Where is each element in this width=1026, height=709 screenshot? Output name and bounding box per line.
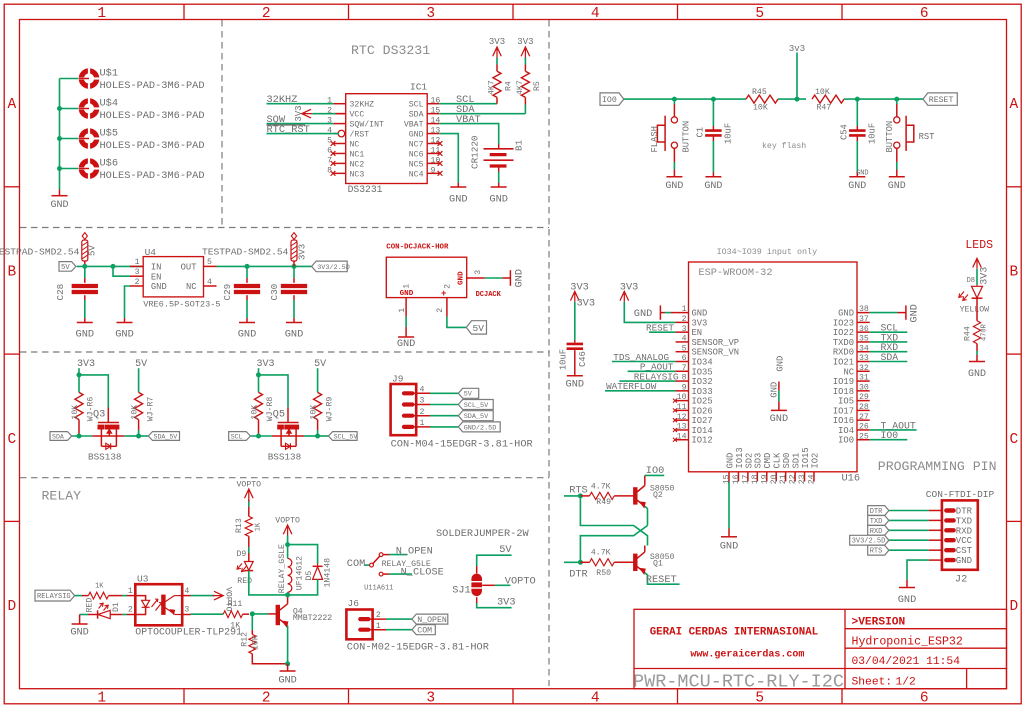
svg-text:NC7: NC7 [409,141,424,150]
ground C30 [293,318,295,323]
svg-text:NC5: NC5 [409,160,424,169]
frame column tick bottom 5 [841,689,843,704]
U3 pin 4 [182,595,190,597]
wire U16 pin38 to ground [870,312,898,314]
U16 pin 6 IO34 [676,361,689,363]
svg-text:/RST: /RST [350,130,370,140]
svg-text:1/2: 1/2 [896,676,916,688]
wire RTC_RST [267,133,339,135]
wire IC1 GND pin to ground [439,134,458,183]
U16 pin 12 IO27 [676,419,689,421]
U16 pin 10 IO25 [676,400,689,402]
svg-text:4: 4 [207,278,212,287]
svg-text:U16: U16 [842,472,861,484]
wire Q4 emitter to ground node [287,626,289,664]
connector J9 box [391,384,417,435]
svg-text:key flash: key flash [762,141,806,151]
U4 pin 3 EN [130,275,143,277]
wire SCL to R4 [439,103,497,105]
junction flash button [672,97,677,102]
svg-text:1: 1 [97,691,106,707]
mounting hole pad U$5 [81,131,96,146]
svg-text:U$4: U$4 [100,97,119,109]
IC1 pin 10 NC5 [427,162,439,164]
wire SCL U16 [870,331,908,333]
svg-text:1K: 1K [95,583,104,591]
wire 5V rail [77,265,144,267]
svg-text:C54: C54 [840,124,850,140]
svg-text:BSS138: BSS138 [268,451,301,462]
svg-text:SCL_5V: SCL_5V [464,402,489,410]
svg-text:Q3: Q3 [93,408,105,420]
svg-text:28: 28 [859,403,869,412]
svg-text:TESTPAD-SMD2.54: TESTPAD-SMD2.54 [202,247,289,258]
U16 pin 15 GND bottom [728,472,730,482]
wire J2 VCC [889,539,929,541]
net label GND/2.5D J9 [458,422,500,432]
net label 5V DCJACK [466,321,486,334]
svg-text:4: 4 [682,335,687,344]
svg-text:RELAY_GSLE: RELAY_GSLE [278,544,287,593]
ground U4 [124,318,126,323]
svg-text:IN: IN [151,263,162,273]
svg-text:OUT: OUT [181,263,197,273]
wire J2 RXD [889,529,929,531]
svg-text:GND: GND [285,329,304,341]
U16 pin 13 IO14 [676,429,689,431]
svg-text:3V3: 3V3 [294,105,304,121]
resistor R47 10K [812,95,844,103]
title block outer box [634,609,1007,688]
LED D1 RED symbol [122,614,127,616]
svg-text:RELAY_G5LE: RELAY_G5LE [382,560,431,569]
svg-text:4K7: 4K7 [516,80,525,95]
svg-text:SCL: SCL [409,101,424,110]
svg-text:10K: 10K [753,104,768,113]
junction C29 [245,264,250,269]
wire VBAT to battery [439,124,499,145]
wire SJ1 top to 5V [476,566,478,573]
svg-text:RESET: RESET [646,574,677,586]
svg-text:3V3: 3V3 [980,267,991,285]
IC1 pin 3 SQW/INT [334,123,346,125]
svg-text:10K: 10K [131,405,140,420]
svg-text:B: B [1009,264,1018,280]
no-connect X IC1 pin 8 [331,171,336,176]
U3 pin 1 [127,595,135,597]
svg-text:U$1: U$1 [100,67,119,79]
svg-text:PWR-MCU-RTC-RLY-I2C: PWR-MCU-RTC-RLY-I2C [633,672,844,693]
power symbol 3V3 LED [973,258,982,269]
svg-text:UF14G12: UF14G12 [296,556,305,590]
frame column tick bottom 4 [677,689,679,704]
svg-text:3V3: 3V3 [577,298,596,310]
svg-text:RED: RED [237,577,252,586]
net label 5V power row [59,262,76,272]
svg-text:HOLES-PAD-3M6-PAD: HOLES-PAD-3M6-PAD [100,170,205,182]
wire SQW [267,123,334,125]
wire 3V3 rail [217,265,312,267]
svg-text:J9: J9 [392,374,404,385]
svg-text:GND: GND [898,594,917,606]
svg-text:IO4: IO4 [838,426,854,436]
resistor R11 1K [223,611,242,618]
wire RESET to U16 pin3 [649,331,676,333]
svg-text:IO14: IO14 [692,426,713,436]
IC1 pin 13 GND [427,133,439,135]
U16 pin 32 NC [857,370,870,372]
no-connect X IC1 pin 12 [438,141,443,146]
net label 3V3/2.5D J2 [850,535,889,545]
IC1 pin 14 VBAT [427,123,439,125]
svg-text:IO26: IO26 [692,406,713,416]
svg-text:N_OPEN: N_OPEN [396,546,433,558]
net label RTS J2 [868,545,889,555]
U16 pin 28 IO17 [857,409,870,411]
net label RESET key flash [923,93,957,105]
svg-text:WJ-R7: WJ-R7 [146,397,155,422]
svg-text:NC: NC [186,282,197,292]
IC1 pin 12 NC7 [427,143,439,145]
svg-text:31: 31 [859,374,869,383]
svg-text:NC4: NC4 [409,170,424,179]
svg-text:SDA: SDA [52,433,64,440]
ground C1 [712,173,714,177]
svg-text:IO34~IO39 input only: IO34~IO39 input only [717,247,818,257]
svg-text:C46: C46 [578,351,588,367]
U16 pin 1 GND [676,312,689,314]
junction C30 [292,264,297,269]
IC1 pin 15 SDA [427,113,439,115]
module U16 box ESP-WROOM-32 [689,262,858,472]
U16 pin 36 IO22 [857,331,870,333]
svg-text:BSS138: BSS138 [88,451,121,462]
svg-text:GND: GND [909,304,921,323]
section divider dashed horizontal y=477.7 [20,477,549,479]
svg-text:3V3: 3V3 [692,318,708,328]
svg-text:IO2: IO2 [810,453,820,469]
svg-text:1: 1 [420,419,425,428]
U16 pin 11 IO26 [676,409,689,411]
svg-text:GND: GND [566,379,585,391]
svg-text:33: 33 [859,354,869,363]
svg-text:1: 1 [135,258,140,267]
wire J9 pin 2 to SDA_5V [430,415,458,417]
wire R6 to source row [78,420,80,436]
svg-text:U4: U4 [145,247,157,258]
testpad TP 3V3 [291,233,296,240]
svg-text:TXD: TXD [870,518,883,526]
svg-text:GND: GND [665,181,683,192]
ground RST [896,173,898,177]
svg-text:Q2: Q2 [653,491,663,500]
svg-text:RST: RST [919,132,935,142]
svg-text:YELLOW: YELLOW [960,305,990,314]
svg-text:3: 3 [682,325,687,334]
wire J6 pin1 to COM [386,629,412,631]
svg-text:DTR: DTR [870,508,883,516]
wire VOPTO to R13 [248,500,250,502]
wire D9 to relay node [249,571,288,595]
svg-text:WATERFLOW: WATERFLOW [606,381,657,392]
capacitor C54 10uF [856,99,858,126]
wire mounting holes ground bus [59,79,61,190]
svg-text:3: 3 [426,691,435,707]
svg-text:IO35: IO35 [692,367,713,377]
no-connect X U16 pin 12 [673,418,677,422]
svg-text:9: 9 [431,166,436,175]
svg-text:GND: GND [115,329,134,341]
svg-text:IO12: IO12 [692,436,713,446]
svg-text:1: 1 [376,622,381,631]
svg-text:6: 6 [682,354,687,363]
svg-text:IO0: IO0 [646,465,665,477]
ground battery B1 [498,183,500,187]
U16 pin 20 CLK bottom [775,472,777,482]
svg-text:12: 12 [677,413,687,422]
svg-text:4.7K: 4.7K [591,482,611,491]
wire internal GND [778,391,780,402]
wire T_AOUT U16 [870,429,917,431]
svg-text:10K: 10K [310,405,319,420]
svg-text:C29: C29 [222,284,233,301]
wire C29 to ground [246,300,248,318]
svg-text:16: 16 [431,97,441,106]
svg-text:GND: GND [776,356,786,372]
svg-text:C28: C28 [55,284,66,301]
section divider dashed horizontal y=227.5 [20,227,549,229]
svg-text:VRE6.5P-SOT23-5: VRE6.5P-SOT23-5 [143,300,220,310]
wire hole U$1 to bus [60,78,79,80]
svg-text:5: 5 [755,691,764,707]
svg-text:5V: 5V [88,245,98,256]
svg-text:GND: GND [409,131,424,140]
capacitor C28 [84,266,86,278]
svg-text:C: C [7,432,16,448]
wire DTR [564,561,580,563]
net label IO0 key flash [600,93,624,105]
svg-text:C: C [1009,432,1018,448]
svg-text:CR1220: CR1220 [470,136,481,169]
frame row tick right 2 [1007,353,1022,355]
svg-text:IO5: IO5 [838,397,854,407]
svg-text:IO27: IO27 [692,416,713,426]
svg-text:2: 2 [436,308,445,313]
svg-text:SQW/INT: SQW/INT [350,120,384,130]
wire Q2 collector to IO0 [645,474,664,476]
svg-text:NC3: NC3 [350,170,365,179]
svg-text:R5: R5 [533,81,542,91]
pushbutton FLASH [673,99,675,104]
svg-text:COM: COM [347,558,366,570]
wire D1 to ground [80,614,88,616]
ground FLASH [673,173,675,177]
svg-text:13: 13 [677,423,687,432]
wire 3V3 to U16 pin2 [624,302,675,322]
resistor R12 10K [251,614,253,630]
svg-text:RXD0: RXD0 [833,348,854,358]
transistor Q2 S8050 [634,488,637,504]
frame row tick left 3 [4,520,19,522]
diode D5 1N4148 [317,564,319,567]
svg-text:SENSOR_VP: SENSOR_VP [692,338,740,348]
svg-text:RELAYSIG: RELAYSIG [37,593,71,601]
svg-text:GND: GND [634,308,653,320]
svg-text:GND: GND [278,675,297,687]
svg-text:1K: 1K [230,621,240,630]
svg-text:FLASH: FLASH [650,126,660,152]
svg-text:3V3/2.5D: 3V3/2.5D [852,538,886,546]
svg-text:R45: R45 [752,88,767,97]
net label TXD J2 [868,516,889,526]
ground U16 pin15 [728,529,730,537]
svg-text:24: 24 [808,474,817,484]
wire EN branch [113,266,130,276]
svg-text:TXD: TXD [956,516,972,526]
wire Q1 emitter to RESET [645,573,680,584]
svg-text:GND: GND [76,329,95,341]
IC1 pin 6 NC1 [334,152,346,154]
svg-text:3V3: 3V3 [297,244,307,260]
mounting hole pad U$4 [81,101,96,116]
resistor R5 4K7 [524,58,526,65]
svg-text:36: 36 [859,325,869,334]
U16 pin 33 IO21 [857,361,870,363]
wire U3 pin4 to VOPTO [191,595,215,597]
ground holes bus [59,190,61,196]
wire J9 pin 4 to 5V [430,392,458,394]
section divider dashed vertical x=222 [221,20,223,228]
wire RXD U16 [870,351,908,353]
svg-text:2: 2 [444,284,453,289]
IC1 pin 9 NC4 [427,172,439,174]
svg-text:5: 5 [682,344,687,353]
net label RELAYSIG [35,590,75,601]
resistor R8 10K [255,392,263,419]
wire WATERFLOW [605,390,676,392]
svg-text:1: 1 [682,305,687,314]
svg-text:4: 4 [420,386,425,395]
svg-text:27: 27 [859,413,869,422]
U16 pin 25 IO0 [857,439,870,441]
svg-text:D: D [7,599,16,615]
svg-text:3V3/2.5D: 3V3/2.5D [317,264,350,272]
J2 pin RXD [946,528,953,532]
svg-text:CON-M04-15EDGR-3.81-HOR: CON-M04-15EDGR-3.81-HOR [391,438,533,450]
svg-text:2: 2 [262,6,271,22]
U16 pin 34 RXD0 [857,351,870,353]
wire R7 to drain row [138,420,140,430]
svg-text:www.geraicerdas.com: www.geraicerdas.com [690,649,804,661]
svg-text:IO0: IO0 [602,96,617,105]
svg-text:N_OPEN: N_OPEN [417,616,447,625]
svg-text:GND: GND [770,413,789,425]
relay contact N_OPEN [379,553,383,557]
svg-text:GERAI CERDAS INTERNASIONAL: GERAI CERDAS INTERNASIONAL [650,627,818,639]
svg-text:3: 3 [426,6,435,22]
wire R50 to Q1 base [614,561,633,563]
frame row tick right 3 [1007,520,1022,522]
svg-text:SCL_5V: SCL_5V [334,433,358,440]
svg-text:IO18: IO18 [833,387,854,397]
junction 5V testpad C28 [82,264,87,269]
svg-text:IO22: IO22 [833,328,854,338]
svg-text:1: 1 [398,308,407,313]
wire RTS [564,495,580,497]
U16 pin 37 IO23 [857,321,870,323]
relay coil K1 RELAY_G5LE UF14G12 [287,545,289,559]
U16 pin 27 IO16 [857,419,870,421]
net label DTR J2 [868,506,889,516]
wire RST to ground [896,162,898,170]
frame column tick bottom 1 [183,689,185,704]
U16 pin 2 3V3 [676,321,689,323]
IC1 pin 8 NC3 [334,172,346,174]
svg-text:3: 3 [184,605,189,614]
svg-text:VBAT: VBAT [404,121,424,130]
wire R9 to drain row [317,420,319,430]
svg-text:IO33: IO33 [692,387,713,397]
svg-text:VCC: VCC [350,111,365,120]
svg-text:C1: C1 [696,127,706,138]
svg-text:3V3: 3V3 [620,282,639,294]
svg-text:470R: 470R [981,323,989,341]
wire R10 to U3 pin1 [109,595,123,597]
svg-text:4: 4 [184,587,189,596]
frame column tick top 3 [512,4,514,19]
junction holes bus y=108 [57,106,62,111]
wire C54 to ground [856,141,858,173]
svg-text:6: 6 [920,691,929,707]
junction drain Q5 [315,434,320,439]
frame column tick top 5 [841,4,843,19]
junction R11 base [250,611,255,616]
svg-text:5V: 5V [499,544,512,556]
svg-text:29: 29 [859,393,869,402]
svg-text:RTS: RTS [870,548,883,556]
svg-text:38: 38 [859,305,869,314]
svg-text:CST: CST [956,546,973,556]
IC1 pin 7 NC2 [334,162,346,164]
capacitor C30 [293,266,295,278]
svg-text:5V: 5V [61,264,70,272]
svg-text:GND: GND [70,627,89,639]
svg-text:5V: 5V [135,359,147,370]
wire SDA U16 [870,361,908,363]
wire source row SDA [72,435,93,437]
U3 internal light arrows [152,599,162,611]
svg-text:26: 26 [859,423,869,432]
power symbol VOPTO right [213,591,224,600]
svg-text:IO17: IO17 [833,406,854,416]
svg-text:VCC: VCC [956,536,973,546]
wire U3 pin3 to R11 [191,613,224,615]
junction holes bus y=138 [57,136,62,141]
svg-text:10uF: 10uF [724,123,734,144]
resistor R10 1K relay input [88,592,108,599]
svg-text:DTR: DTR [569,568,588,580]
solder jumper SJ1 [471,574,482,581]
svg-text:DS3231: DS3231 [348,184,383,195]
U16 pin 23 IO15 bottom [804,472,806,482]
junction relay bottom [285,592,290,597]
junction holes bus y=168 [57,166,62,171]
no-connect X IC1 pin 5 [331,141,336,146]
svg-text:13: 13 [431,127,441,136]
net label SCL_5V [328,432,357,441]
wire SJ1 bottom to 3V3 [476,597,478,603]
wire R8 to source row [258,420,260,436]
